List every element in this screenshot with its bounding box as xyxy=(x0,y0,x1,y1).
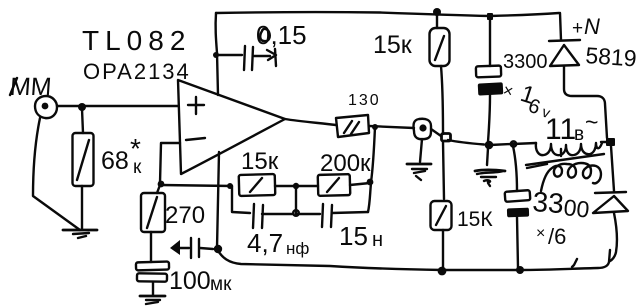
svg-text:4,7: 4,7 xyxy=(247,228,283,258)
ground mid xyxy=(475,170,505,186)
node caps middle xyxy=(293,210,299,216)
output circle node xyxy=(414,119,432,139)
node at 15K left xyxy=(227,183,233,189)
node 3300 tap xyxy=(511,141,516,146)
transformer primary winding xyxy=(541,163,601,191)
wire 3300 tap down xyxy=(513,146,517,191)
wire top rail xyxy=(216,12,559,16)
wire left vertical above op-amp xyxy=(217,53,218,95)
ground below 68K xyxy=(63,230,97,238)
ground below 100mk xyxy=(140,296,165,304)
wire link resistors to caps xyxy=(295,188,297,214)
resistor 130 xyxy=(336,115,369,137)
capacitor 15n xyxy=(296,183,371,227)
input jack MM circle xyxy=(35,96,57,118)
node bottom rail at 3300 xyxy=(516,266,524,274)
label OPA2134 xyxy=(83,59,191,84)
wire 15K to 200K xyxy=(275,185,318,187)
svg-text:мк: мк xyxy=(210,274,232,295)
ground below output circle xyxy=(407,164,431,180)
svg-text:68: 68 xyxy=(101,147,129,175)
label 3300 upper xyxy=(503,51,548,73)
op-amp plus input symbol xyxy=(188,97,204,114)
label 200K xyxy=(320,150,371,177)
node top rail at 15K xyxy=(433,8,441,16)
wire 200K to output tap xyxy=(350,183,370,185)
svg-text:100: 100 xyxy=(169,267,211,295)
wire op-amp output xyxy=(285,119,336,125)
wire bottom rail xyxy=(217,249,610,270)
svg-text:*: * xyxy=(130,133,141,164)
capacitor 4.7nF xyxy=(253,204,296,228)
op-amp U1 triangle xyxy=(178,80,285,174)
wire square junction down to 15K lower xyxy=(443,142,444,199)
svg-text:15к: 15к xyxy=(373,31,413,59)
node between 15K and 200K xyxy=(293,183,299,189)
svg-text:нф: нф xyxy=(286,239,309,258)
svg-text:15: 15 xyxy=(339,221,368,251)
wire 15K down to square junction xyxy=(441,66,443,134)
label 100mk xyxy=(169,267,232,295)
label 3300 lower xyxy=(532,186,591,223)
wire minus input stub xyxy=(160,143,180,183)
svg-text:N: N xyxy=(584,14,600,39)
wire minus node down to 270 xyxy=(157,185,160,193)
wire output circle to ground xyxy=(420,139,422,162)
wire lower diode to bottom rail xyxy=(610,213,617,261)
wire rail corner to diode 5819 xyxy=(560,13,561,40)
wire circle node to mid line xyxy=(431,129,441,136)
label MM xyxy=(9,73,53,101)
label 130 xyxy=(348,92,381,109)
svg-text:+: + xyxy=(572,18,583,39)
wire 270 to 100mk xyxy=(150,232,152,262)
wire output tap down to 200K xyxy=(371,127,375,182)
resistor 68K xyxy=(73,133,94,186)
tick on bottom rail xyxy=(572,259,577,267)
wire to transformer xyxy=(513,143,536,144)
svg-text:н: н xyxy=(372,229,383,251)
diode lower right xyxy=(593,192,628,213)
svg-text:200к: 200к xyxy=(320,150,371,177)
node bottom rail at 15K xyxy=(438,267,447,276)
svg-text:OPA2134: OPA2134 xyxy=(83,59,191,84)
svg-text:5819: 5819 xyxy=(585,42,638,72)
wire left vertical from rail to 0.15 tap xyxy=(216,13,217,53)
svg-text:15К: 15К xyxy=(457,208,493,231)
svg-text:130: 130 xyxy=(348,92,381,109)
resistor 15K lower xyxy=(431,201,452,230)
resistor 15K upper right xyxy=(430,28,450,66)
capacitor tap with left arrow near bottom node xyxy=(170,238,213,258)
transformer core xyxy=(526,154,604,168)
svg-text:0,15: 0,15 xyxy=(256,20,307,50)
wire winding to right junction xyxy=(601,141,607,143)
label 15n xyxy=(339,221,383,251)
node top rail at 490 xyxy=(487,13,493,20)
svg-text:270: 270 xyxy=(165,202,205,229)
svg-text:TL082: TL082 xyxy=(82,25,191,56)
svg-text:3300: 3300 xyxy=(503,51,548,73)
resistor 270 xyxy=(141,193,165,232)
node at input junction xyxy=(78,103,86,111)
svg-text:11: 11 xyxy=(545,113,576,146)
op-amp minus input symbol xyxy=(186,138,205,140)
svg-text:00: 00 xyxy=(562,194,590,223)
wire minus node to feedback network xyxy=(161,185,232,186)
wire junction down to 68K xyxy=(82,109,83,133)
node transformer right junction xyxy=(606,138,615,146)
label 11v~ xyxy=(545,109,598,146)
transformer secondary winding xyxy=(536,143,602,156)
label 5819 xyxy=(585,42,638,72)
wire mid junction to ground xyxy=(487,148,488,165)
node minus junction xyxy=(158,181,165,188)
capacitor 0.15 with arrow xyxy=(213,46,276,70)
label 0,15 xyxy=(256,20,307,50)
svg-text:в: в xyxy=(574,124,584,145)
resistor 200K xyxy=(318,174,351,196)
wire 68K to ground xyxy=(81,186,83,229)
wire 3300 down to mid junction xyxy=(488,95,490,142)
svg-text:15к: 15к xyxy=(241,148,279,175)
wire 130 to output node xyxy=(369,126,414,128)
wire shield from jack to ground xyxy=(33,118,80,230)
label TL082 xyxy=(82,25,191,56)
svg-text:/6: /6 xyxy=(548,224,566,249)
node mid ground junction xyxy=(485,141,494,150)
wire mid line to right xyxy=(448,140,484,145)
wire rail down to 3300 xyxy=(489,20,491,66)
capacitor 3300x6 electrolytic xyxy=(505,190,531,217)
label x/6 xyxy=(536,224,566,249)
node output tap xyxy=(372,124,378,130)
capacitor 100mk electrolytic xyxy=(136,262,169,282)
wire 5819 anode to transformer right xyxy=(564,66,607,138)
diode 5819 xyxy=(549,40,580,66)
node at 200K right xyxy=(367,179,374,186)
svg-text:~: ~ xyxy=(585,109,598,135)
label 270 xyxy=(165,202,205,229)
svg-text:MM: MM xyxy=(9,73,53,101)
node bottom-left junction xyxy=(214,245,222,253)
label 15K upper right xyxy=(373,31,413,59)
label 68K* xyxy=(101,133,142,178)
resistor 15K feedback xyxy=(239,174,276,196)
wire left vertical below op-amp to bottom node xyxy=(217,152,219,248)
wire 3300 lower to bottom rail xyxy=(517,217,518,268)
wire rail to 15K top xyxy=(436,14,438,28)
wire mid to 3300 tap xyxy=(490,144,511,145)
svg-text:33: 33 xyxy=(532,186,565,219)
label x16v xyxy=(501,80,553,122)
label 15K feedback xyxy=(241,148,279,175)
wire input to op-amp plus xyxy=(57,105,178,107)
label 4,7nF xyxy=(247,228,309,258)
label 15K lower xyxy=(457,208,493,231)
wire 4.7n left leg xyxy=(232,186,250,213)
wire 100mk to ground xyxy=(152,282,154,295)
capacitor 3300x16 electrolytic xyxy=(476,66,503,96)
svg-text:×: × xyxy=(536,225,545,242)
node square junction mid xyxy=(442,134,451,142)
wire right junction down to lower diode xyxy=(611,146,614,191)
label +N xyxy=(572,14,600,39)
wire 15K lower to bottom rail xyxy=(442,230,444,269)
